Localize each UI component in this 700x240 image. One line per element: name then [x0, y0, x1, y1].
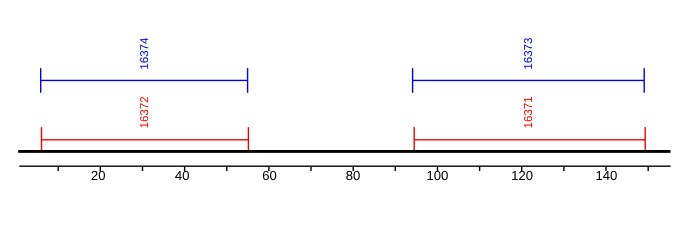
axis label 140: [596, 171, 616, 180]
axis line: [19, 165, 670, 167]
label 16373 (rotated, blue): [524, 38, 532, 69]
label 16374 (rotated, blue): [140, 38, 148, 69]
label 16372 (rotated, red): [140, 97, 148, 128]
axis label 120: [512, 171, 532, 180]
axis label 40: [175, 171, 189, 180]
axis label 80: [346, 171, 359, 180]
interval bar 16373 (blue range marker): [413, 68, 645, 93]
reference baseline (thick black): [18, 150, 670, 153]
label 16371 (rotated, red): [524, 97, 532, 128]
axis label 60: [263, 171, 276, 180]
axis ticks (every 10 units): [58, 167, 648, 171]
interval bar 16371 (red range marker): [414, 127, 645, 152]
interval bar 16374 (blue range marker): [41, 68, 248, 93]
axis label 20: [92, 171, 105, 180]
interval bar 16372 (red range marker): [42, 127, 249, 152]
axis label 100: [427, 171, 447, 180]
